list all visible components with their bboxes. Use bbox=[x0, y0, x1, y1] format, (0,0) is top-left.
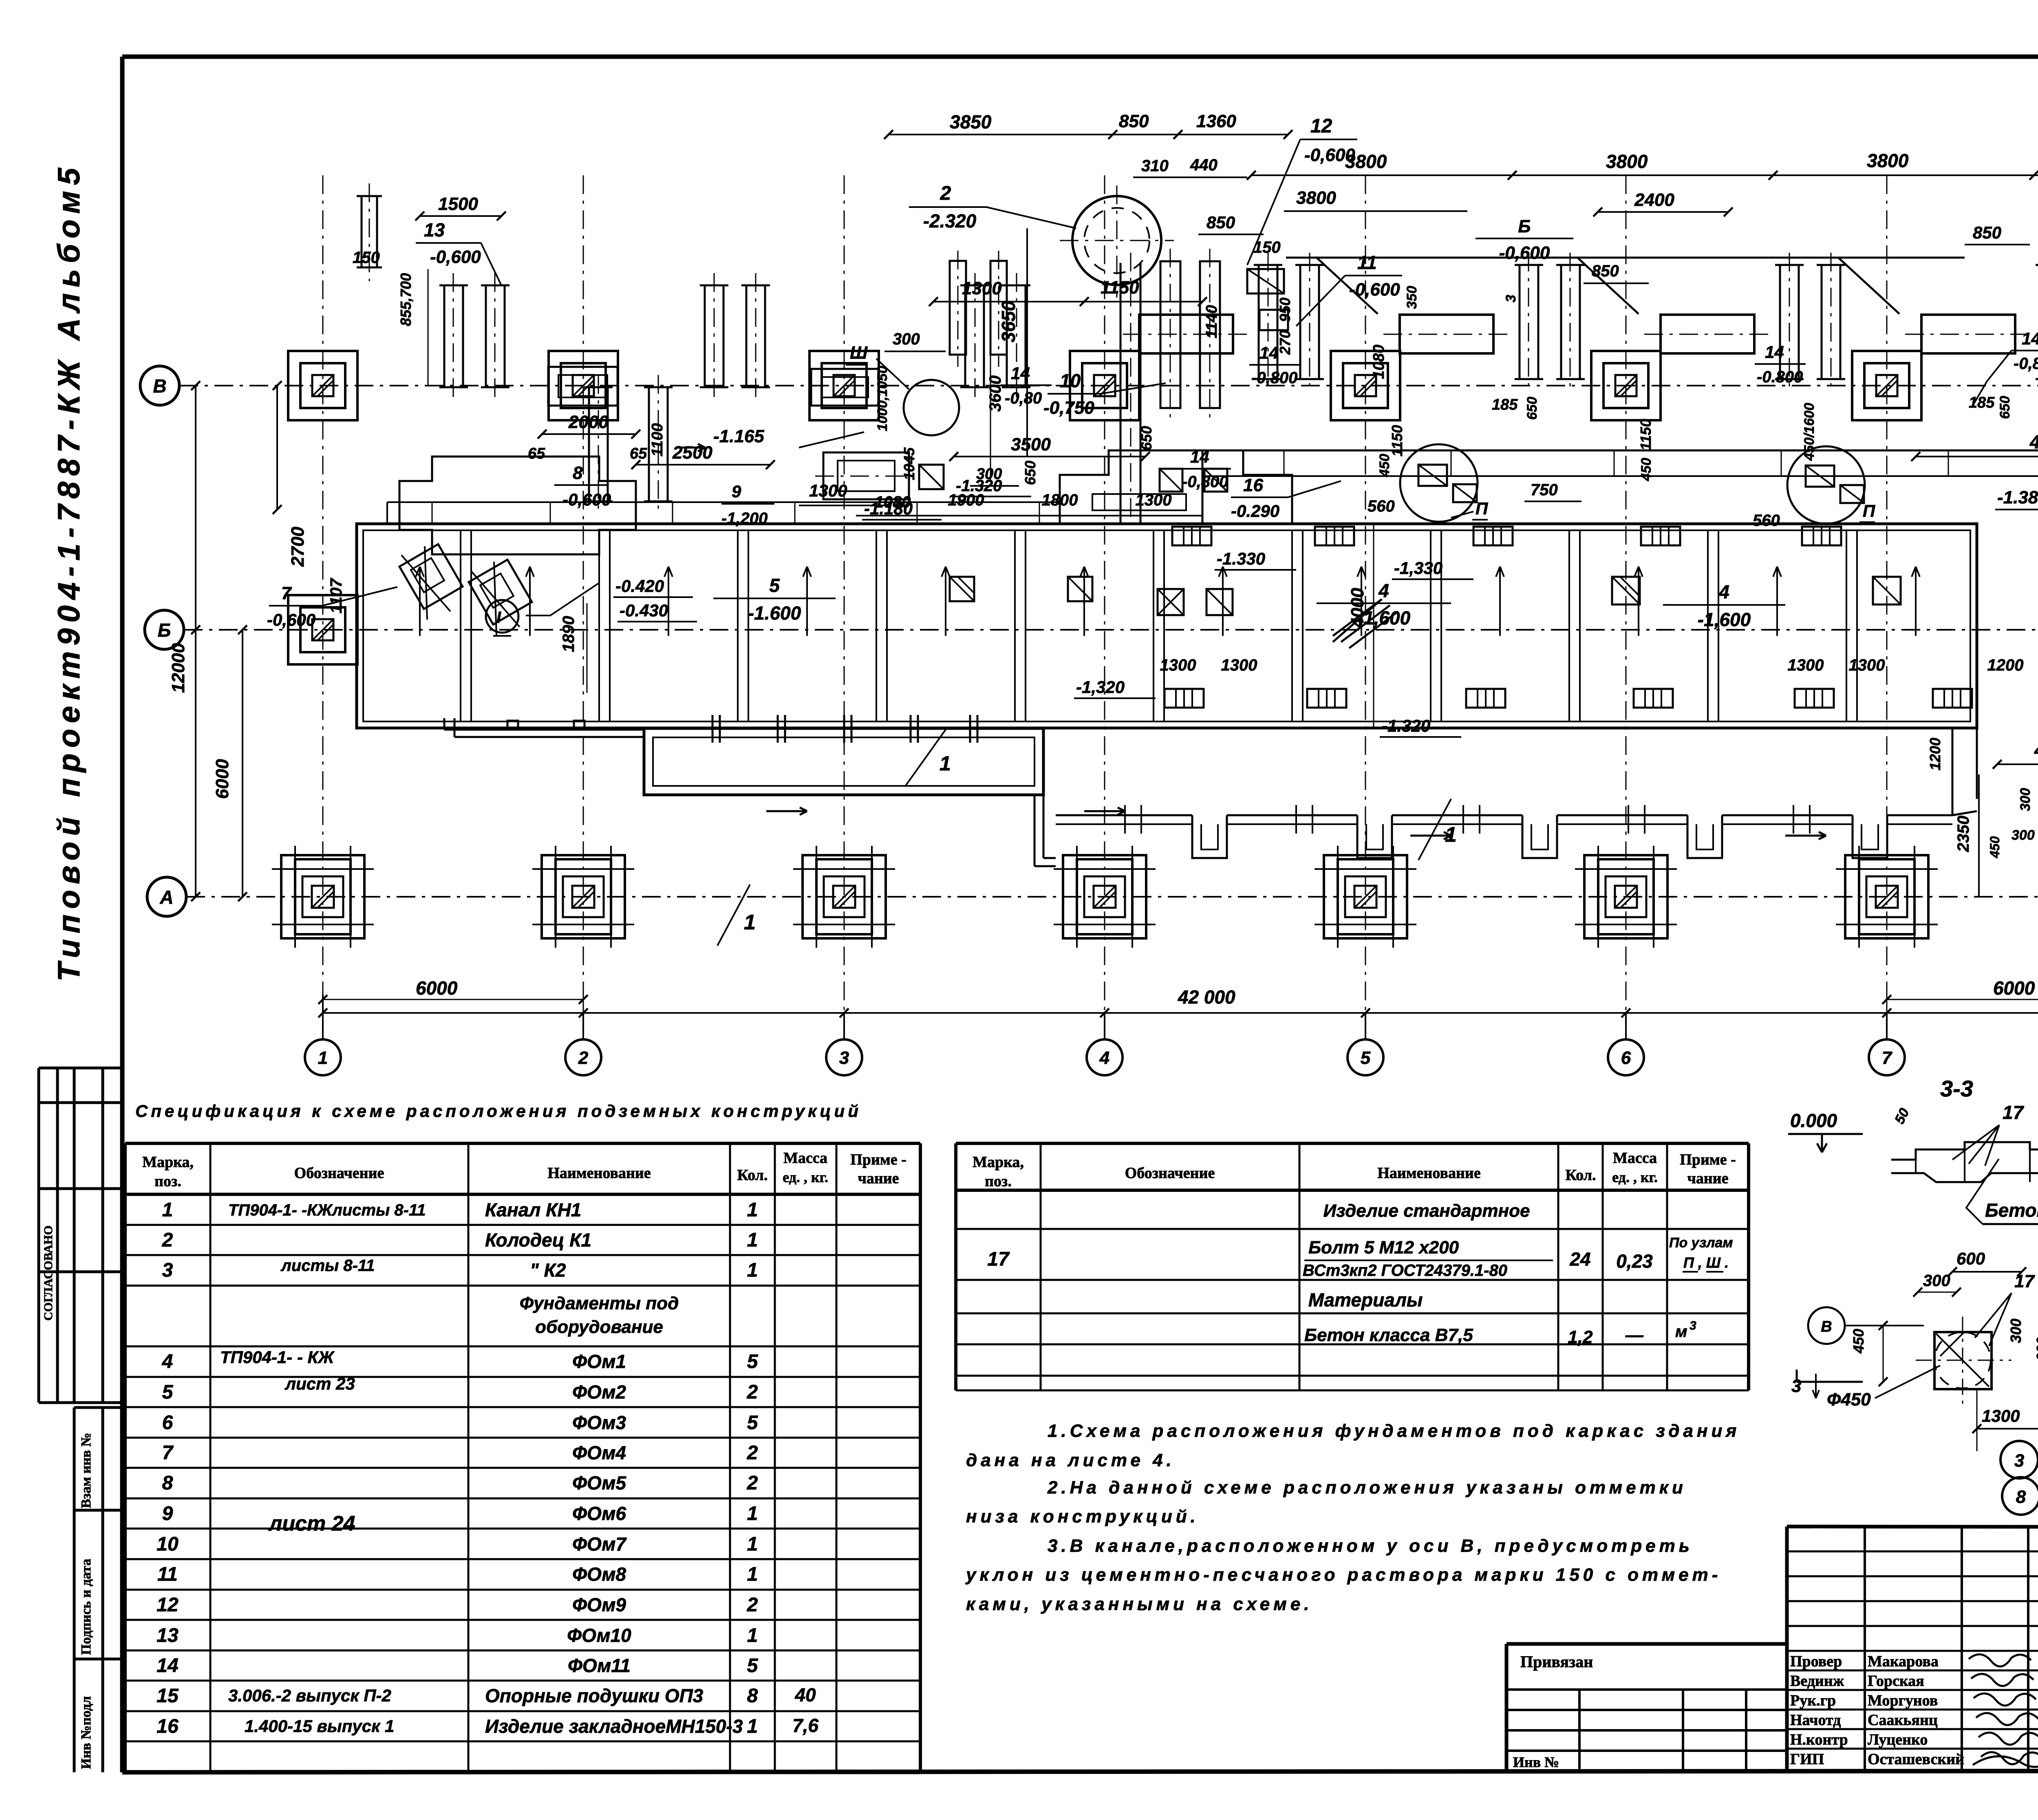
svg-text:Ш: Ш bbox=[850, 343, 868, 363]
svg-text:300: 300 bbox=[2012, 827, 2035, 843]
svg-text:-1.380: -1.380 bbox=[1997, 488, 2038, 507]
svg-text:Изделие закладноеМН150-3: Изделие закладноеМН150-3 bbox=[485, 1716, 743, 1737]
column line 4 bbox=[1104, 175, 1105, 1039]
channel pair span 2-3 bbox=[700, 273, 770, 399]
svg-text:-0.420: -0.420 bbox=[615, 576, 664, 596]
svg-text:12: 12 bbox=[1310, 115, 1332, 137]
axis circle В bbox=[140, 366, 179, 405]
column line 5 bbox=[1365, 175, 1366, 1039]
axis circle А bbox=[147, 877, 186, 916]
svg-text:чание: чание bbox=[1687, 1170, 1728, 1187]
svg-text:4050: 4050 bbox=[2034, 740, 2038, 760]
axis circle Б bbox=[145, 610, 184, 649]
dim 300 mid bbox=[970, 465, 1019, 486]
svg-text:Н.контр: Н.контр bbox=[1790, 1731, 1848, 1748]
svg-text:Приме -: Приме - bbox=[1680, 1151, 1736, 1168]
svg-text:5: 5 bbox=[769, 575, 780, 596]
pile cap span 4-5 bbox=[1123, 315, 1249, 353]
side stamp Подпись и дата bbox=[74, 1510, 122, 1655]
svg-text:ФОм7: ФОм7 bbox=[572, 1533, 627, 1555]
svg-text:Марка,: Марка, bbox=[142, 1154, 194, 1171]
side stamp Взам инв № bbox=[74, 1407, 122, 1772]
svg-text:3: 3 bbox=[1503, 295, 1519, 302]
svg-text:1045: 1045 bbox=[901, 447, 918, 480]
band dim 4000 vertical bbox=[1348, 524, 1374, 728]
svg-text:14: 14 bbox=[1259, 343, 1279, 362]
III circled 3 bbox=[2001, 1441, 2038, 1478]
platform edge right half bbox=[1202, 450, 2038, 524]
svg-text:16: 16 bbox=[1243, 475, 1263, 495]
node III circle top bbox=[846, 343, 959, 435]
svg-text:1200: 1200 bbox=[1927, 738, 1943, 770]
right table contents bbox=[987, 1201, 1733, 1347]
svg-text:0,23: 0,23 bbox=[1616, 1251, 1653, 1272]
column line 1 bbox=[322, 175, 324, 1039]
band dims 1300 1300 right bbox=[1788, 656, 1885, 674]
svg-text:14: 14 bbox=[2022, 329, 2038, 348]
footing А5 bbox=[1315, 846, 1416, 948]
dim 185 650 b bbox=[1969, 394, 2013, 419]
svg-text:850: 850 bbox=[1119, 111, 1149, 131]
band direction arrows bbox=[416, 567, 1920, 636]
svg-text:6000: 6000 bbox=[416, 977, 458, 999]
svg-text:поз.: поз. bbox=[154, 1173, 181, 1190]
dim 2500 bbox=[631, 443, 775, 469]
column line 2 bbox=[583, 175, 584, 1039]
svg-text:листы 8-11: листы 8-11 bbox=[280, 1257, 375, 1275]
svg-text:3800: 3800 bbox=[1345, 151, 1387, 172]
svg-text:оборудование: оборудование bbox=[535, 1317, 663, 1337]
central hatch squares bbox=[1160, 469, 1227, 492]
svg-text:2: 2 bbox=[747, 1594, 758, 1616]
axis line А bbox=[186, 896, 2038, 898]
label 750 bbox=[1524, 481, 1581, 501]
dim 1890 vertical bbox=[560, 603, 587, 693]
dim 185 650 a bbox=[1492, 396, 1540, 420]
svg-text:1: 1 bbox=[747, 1625, 758, 1646]
svg-text:5: 5 bbox=[747, 1655, 759, 1677]
svg-text:2500: 2500 bbox=[672, 443, 712, 463]
svg-text:350: 350 bbox=[1404, 286, 1420, 309]
svg-text:ФОм1: ФОм1 bbox=[572, 1351, 626, 1372]
signature scribbles bbox=[1969, 1655, 2038, 1767]
svg-text:5: 5 bbox=[162, 1381, 174, 1403]
pile cap span 5-6 bbox=[1383, 315, 1510, 353]
svg-text:17: 17 bbox=[987, 1249, 1010, 1270]
left specification table grid bbox=[125, 1143, 920, 1773]
svg-text:6000: 6000 bbox=[1993, 977, 2035, 999]
dim 1080 vertical bbox=[1370, 344, 1387, 379]
svg-text:ФОм6: ФОм6 bbox=[572, 1503, 626, 1524]
channel pair span 5-6 bbox=[1515, 253, 1585, 391]
footing А2 bbox=[532, 846, 634, 948]
svg-text:2: 2 bbox=[747, 1472, 758, 1494]
svg-text:1300: 1300 bbox=[1849, 656, 1885, 674]
vertical album title text bbox=[52, 162, 86, 982]
svg-text:12000: 12000 bbox=[168, 643, 188, 693]
dim 3600 vertical bbox=[986, 351, 1004, 481]
dim 850 mid bbox=[1584, 262, 1649, 283]
svg-text:1300: 1300 bbox=[1982, 1406, 2020, 1425]
svg-text:450: 450 bbox=[1639, 458, 1654, 481]
svg-text:8: 8 bbox=[2016, 1487, 2026, 1507]
svg-text:Обозначение: Обозначение bbox=[1125, 1165, 1215, 1182]
axis line В bbox=[179, 385, 2038, 386]
svg-text:П , Ш .: П , Ш . bbox=[1683, 1254, 1729, 1271]
svg-text:Кол.: Кол. bbox=[737, 1167, 768, 1184]
band label -1.320 b bbox=[1380, 716, 1461, 737]
svg-text:-0,600: -0,600 bbox=[430, 247, 481, 267]
svg-text:12: 12 bbox=[157, 1594, 179, 1616]
svg-text:650: 650 bbox=[1138, 426, 1155, 450]
svg-text:В: В bbox=[153, 375, 166, 397]
dim 1200 vertical bbox=[1927, 738, 1943, 770]
label 560 II right bbox=[1753, 501, 1875, 529]
svg-text:1: 1 bbox=[747, 1229, 758, 1251]
svg-text:300: 300 bbox=[2018, 788, 2033, 811]
footing В3 bbox=[801, 351, 887, 420]
svg-text:3: 3 bbox=[2014, 1451, 2024, 1471]
svg-text:Горская: Горская bbox=[1868, 1672, 1924, 1690]
svg-text:450: 450 bbox=[1987, 836, 2002, 858]
svg-text:4: 4 bbox=[1718, 581, 1729, 602]
svg-text:14: 14 bbox=[1011, 364, 1030, 383]
dim 2400 top bbox=[1593, 190, 1733, 216]
svg-text:1150: 1150 bbox=[1389, 425, 1405, 457]
channel pair span 7-8 bbox=[2036, 253, 2038, 391]
III axis line left bbox=[1797, 1370, 1863, 1382]
svg-text:Наименование: Наименование bbox=[1377, 1165, 1480, 1182]
title block signatures column bbox=[1790, 1653, 1964, 1768]
svg-text:150: 150 bbox=[353, 249, 380, 267]
axis circle 2 bbox=[565, 1039, 601, 1075]
svg-text:-0,600: -0,600 bbox=[562, 490, 611, 509]
label 14 -0.800 r3 bbox=[1973, 329, 2038, 406]
svg-text:13: 13 bbox=[424, 219, 445, 240]
central pads bbox=[1247, 269, 1288, 330]
dim row 310 440 bbox=[1133, 156, 1247, 177]
svg-text:Фундаменты под: Фундаменты под bbox=[520, 1293, 679, 1313]
svg-text:11: 11 bbox=[157, 1564, 178, 1585]
label 10 -0.750 bbox=[1043, 370, 1166, 418]
right table header bbox=[973, 1149, 1736, 1190]
canal end right bbox=[1952, 728, 1977, 815]
svg-text:300: 300 bbox=[2007, 1319, 2024, 1343]
svg-text:3800: 3800 bbox=[1606, 151, 1648, 172]
III dim 450 left bbox=[1850, 1321, 1888, 1386]
channel pair span 1-2 bbox=[439, 273, 509, 399]
svg-text:850: 850 bbox=[1592, 262, 1619, 280]
pit square col2 bbox=[548, 367, 618, 406]
svg-text:В: В bbox=[1821, 1318, 1832, 1335]
footing А7 bbox=[1836, 846, 1938, 948]
svg-text:1360: 1360 bbox=[1196, 111, 1236, 131]
III dims right bbox=[2007, 1319, 2038, 1380]
svg-text:6: 6 bbox=[162, 1412, 173, 1434]
svg-text:поз.: поз. bbox=[985, 1173, 1012, 1190]
dim 6000 vertical bbox=[212, 625, 247, 901]
svg-text:0.000: 0.000 bbox=[1790, 1110, 1837, 1131]
dim 4150 bbox=[1911, 431, 2038, 461]
svg-text:-2.320: -2.320 bbox=[923, 210, 977, 232]
svg-text:Масса: Масса bbox=[783, 1149, 827, 1167]
svg-text:17: 17 bbox=[2014, 1271, 2035, 1291]
dim row 3850 850 1360 bbox=[884, 111, 1292, 139]
left table header bbox=[142, 1149, 907, 1190]
svg-text:2: 2 bbox=[940, 183, 951, 204]
svg-text:3: 3 bbox=[1791, 1376, 1801, 1396]
svg-text:10: 10 bbox=[157, 1533, 179, 1555]
upper strip edge Б -0.600 bbox=[1286, 258, 1965, 314]
3-3 concrete note bbox=[1966, 1159, 2038, 1224]
canal settling box bbox=[644, 715, 1043, 795]
dim 3800 left of center bbox=[1284, 188, 1467, 211]
dims 65 65 bbox=[528, 445, 647, 462]
dim 6000 left line bbox=[318, 995, 588, 1004]
diag ladder bbox=[1333, 599, 1398, 648]
svg-text:-1,200: -1,200 bbox=[721, 510, 768, 527]
svg-text:-0,80: -0,80 bbox=[1005, 389, 1042, 407]
node I mark on plan bbox=[486, 600, 518, 636]
well К2 circle bbox=[1060, 185, 1174, 298]
svg-text:СОГЛАСОВАНО: СОГЛАСОВАНО bbox=[42, 1225, 55, 1321]
svg-text:600: 600 bbox=[2034, 1337, 2038, 1361]
svg-text:2350: 2350 bbox=[1954, 816, 1972, 852]
svg-text:2400: 2400 bbox=[1634, 190, 1674, 210]
svg-text:1300: 1300 bbox=[962, 278, 1002, 298]
dim 850 top left bbox=[1198, 213, 1264, 234]
svg-text:ФОм4: ФОм4 bbox=[572, 1442, 626, 1463]
pit square col3 bbox=[811, 369, 878, 406]
svg-text:Наименование: Наименование bbox=[547, 1165, 651, 1182]
svg-text:-1.600: -1.600 bbox=[748, 602, 801, 624]
svg-text:ед. , кг.: ед. , кг. bbox=[1612, 1169, 1658, 1185]
svg-text:3600: 3600 bbox=[986, 375, 1004, 412]
dim 1150 vertical bbox=[1377, 425, 1405, 477]
svg-text:3: 3 bbox=[839, 1048, 849, 1068]
svg-text:дана на листе 4.: дана на листе 4. bbox=[966, 1450, 1175, 1470]
svg-text:Приме -: Приме - bbox=[850, 1151, 907, 1168]
labels -0.420 -0.430 bbox=[526, 576, 697, 622]
band label 5 -1.600 bbox=[713, 575, 836, 624]
binding box label bbox=[1520, 1652, 1593, 1671]
dim 2700 vertical bbox=[273, 381, 308, 567]
label 7 -0.600 left bbox=[267, 583, 397, 629]
axis circle 7 bbox=[1869, 1039, 1905, 1075]
label 1 arrow a bbox=[905, 730, 951, 787]
svg-text:Бетон класса В7,5: Бетон класса В7,5 bbox=[1985, 1200, 2038, 1221]
III dim 600 bbox=[1948, 1249, 2026, 1276]
footing В5 bbox=[1323, 351, 1408, 420]
svg-text:1890: 1890 bbox=[560, 616, 578, 652]
dim 1107 vertical bbox=[327, 578, 345, 613]
dim 12000 vertical bbox=[168, 381, 200, 901]
footing А6 bbox=[1575, 846, 1677, 948]
svg-text:560: 560 bbox=[1367, 497, 1395, 515]
svg-text:3: 3 bbox=[1690, 1319, 1696, 1332]
svg-text:3.006.-2 выпуск П-2: 3.006.-2 выпуск П-2 bbox=[228, 1686, 391, 1705]
svg-text:3800: 3800 bbox=[1296, 188, 1336, 208]
svg-text:14: 14 bbox=[157, 1655, 178, 1677]
svg-text:м: м bbox=[1675, 1323, 1687, 1341]
svg-text:-0.800: -0.800 bbox=[1757, 368, 1803, 386]
svg-text:650: 650 bbox=[1524, 397, 1540, 420]
canal КН1 zigzag bbox=[1056, 805, 1952, 858]
dim 1100 vertical bbox=[649, 423, 666, 457]
svg-text:Опорные подушки ОП3: Опорные подушки ОП3 bbox=[485, 1685, 704, 1706]
svg-text:310: 310 bbox=[1141, 157, 1169, 175]
svg-text:1150: 1150 bbox=[1101, 278, 1139, 298]
node II hatch left bbox=[1418, 465, 1477, 502]
dim 150 center bbox=[1253, 238, 1281, 256]
label 300 a bbox=[884, 330, 946, 351]
svg-text:2: 2 bbox=[747, 1442, 758, 1464]
small dims near III bbox=[1987, 788, 2035, 858]
channel pair below В span2 bbox=[584, 375, 673, 514]
dim 1150 450 vertical bbox=[1637, 419, 1654, 481]
right specification table grid bbox=[956, 1143, 1749, 1390]
dims 855 700 vertical bbox=[397, 269, 428, 386]
axis circle 6 bbox=[1608, 1039, 1644, 1075]
svg-text:1: 1 bbox=[162, 1199, 173, 1221]
band label -1.330 a bbox=[1215, 549, 1296, 570]
svg-text:600: 600 bbox=[1956, 1249, 1985, 1268]
svg-text:ФОм2: ФОм2 bbox=[572, 1381, 626, 1403]
column line 6 bbox=[1626, 175, 1627, 1039]
dim 450 1600 vertical bbox=[1802, 403, 1817, 461]
svg-text:ФОм5: ФОм5 bbox=[572, 1472, 626, 1494]
svg-text:ФОм10: ФОм10 bbox=[567, 1625, 631, 1646]
svg-text:ВСт3кп2 ГОСТ24379.1-80: ВСт3кп2 ГОСТ24379.1-80 bbox=[1303, 1262, 1507, 1280]
svg-text:11: 11 bbox=[1357, 252, 1377, 273]
svg-text:4150: 4150 bbox=[2029, 431, 2038, 452]
svg-text:1080: 1080 bbox=[1370, 344, 1387, 379]
general notes text bbox=[965, 1421, 1740, 1614]
column line 3 bbox=[844, 175, 845, 1039]
svg-text:450/1600: 450/1600 bbox=[1802, 403, 1817, 461]
rotated footing 7b bbox=[469, 560, 532, 635]
svg-text:2.На данной схеме расположе: 2.На данной схеме расположения указаны о… bbox=[1047, 1478, 1687, 1498]
svg-text:-0.430: -0.430 bbox=[620, 601, 668, 620]
footing В1 bbox=[280, 351, 366, 420]
III label 17 bbox=[1975, 1271, 2035, 1346]
central channel b bbox=[1200, 249, 1220, 422]
label -1.320 mid bbox=[954, 477, 1031, 496]
channel pair below В span3 bbox=[950, 251, 1007, 367]
svg-text:Типовой проект904-1-7887-КЖ Ал: Типовой проект904-1-7887-КЖ Альбом5 bbox=[52, 162, 86, 982]
binding box grid bbox=[1506, 1690, 1787, 1772]
svg-text:-0,600: -0,600 bbox=[267, 610, 315, 629]
label 11 -0.600 bbox=[1296, 252, 1402, 326]
svg-text:1: 1 bbox=[747, 1716, 758, 1737]
svg-text:А: А bbox=[159, 887, 173, 908]
dim 2350 vertical bbox=[1954, 774, 1979, 897]
svg-text:—: — bbox=[1625, 1325, 1644, 1345]
label 13 -0.600 bbox=[416, 219, 501, 285]
svg-text:3850: 3850 bbox=[950, 111, 992, 132]
section title 3-3 bbox=[1940, 1076, 1973, 1101]
svg-text:1500: 1500 bbox=[438, 194, 478, 214]
svg-text:7,6: 7,6 bbox=[792, 1715, 818, 1736]
svg-text:5: 5 bbox=[1361, 1048, 1371, 1068]
dim row 3800 x4 5200 bbox=[1247, 149, 2038, 180]
svg-text:3650: 3650 bbox=[998, 300, 1019, 342]
svg-text:1.Схема расположения фундаме: 1.Схема расположения фундаментов под кар… bbox=[1048, 1421, 1740, 1441]
svg-text:42 000: 42 000 bbox=[1178, 986, 1235, 1008]
svg-text:7: 7 bbox=[1882, 1048, 1893, 1068]
svg-text:чание: чание bbox=[858, 1170, 899, 1187]
svg-text:Саакьянц: Саакьянц bbox=[1868, 1712, 1938, 1729]
svg-text:Канал КН1: Канал КН1 bbox=[485, 1199, 581, 1220]
svg-text:3800: 3800 bbox=[1867, 150, 1909, 171]
svg-text:Колодец К1: Колодец К1 bbox=[485, 1229, 591, 1251]
svg-text:Взам инв №: Взам инв № bbox=[79, 1433, 94, 1508]
svg-text:14: 14 bbox=[1765, 342, 1784, 362]
svg-text:Рук.гр: Рук.гр bbox=[1790, 1692, 1836, 1709]
svg-text:лист 23: лист 23 bbox=[285, 1374, 355, 1393]
svg-text:Начотд: Начотд bbox=[1790, 1712, 1841, 1729]
footing В4 bbox=[1062, 351, 1147, 420]
arrow marks mid band bbox=[766, 807, 1826, 839]
svg-text:" К2: " К2 bbox=[530, 1260, 566, 1281]
svg-text:Обозначение: Обозначение bbox=[294, 1165, 384, 1182]
svg-text:Бетон класса В7,5: Бетон класса В7,5 bbox=[1304, 1325, 1473, 1345]
svg-text:7: 7 bbox=[162, 1442, 174, 1464]
svg-text:1: 1 bbox=[747, 1533, 758, 1555]
svg-text:1: 1 bbox=[318, 1048, 328, 1068]
III circled 8 bbox=[2002, 1477, 2038, 1515]
III dim 1300 bbox=[1972, 1390, 2038, 1451]
svg-text:ФОм3: ФОм3 bbox=[572, 1412, 626, 1433]
svg-text:440: 440 bbox=[1190, 156, 1218, 174]
svg-text:ФОм8: ФОм8 bbox=[572, 1564, 626, 1585]
svg-text:2: 2 bbox=[162, 1229, 173, 1251]
3-3 level 0.000 bbox=[1788, 1110, 1863, 1152]
svg-text:-1,600: -1,600 bbox=[1698, 609, 1751, 630]
svg-text:Материалы: Материалы bbox=[1308, 1289, 1423, 1310]
svg-text:1: 1 bbox=[747, 1564, 758, 1585]
small hatch col6 bbox=[1612, 577, 1640, 604]
dims 270 950 vertical bbox=[1277, 298, 1293, 355]
svg-text:3-3: 3-3 bbox=[1940, 1076, 1973, 1101]
svg-text:Болт 5 М12 х200: Болт 5 М12 х200 bbox=[1308, 1238, 1459, 1257]
svg-text:4: 4 bbox=[1099, 1048, 1109, 1068]
svg-text:-0,800: -0,800 bbox=[1251, 369, 1297, 387]
svg-text:Изделие стандартное: Изделие стандартное bbox=[1323, 1201, 1530, 1221]
left table contents bbox=[157, 1199, 818, 1737]
svg-text:2700: 2700 bbox=[288, 527, 308, 567]
svg-text:300: 300 bbox=[893, 330, 920, 348]
machine foundation band outline bbox=[357, 524, 1977, 728]
svg-text:-0.290: -0.290 bbox=[1231, 501, 1279, 521]
rotated footing 7a bbox=[399, 544, 463, 620]
svg-text:Вединж: Вединж bbox=[1790, 1672, 1844, 1690]
svg-text:Макарова: Макарова bbox=[1868, 1653, 1939, 1670]
svg-text:24: 24 bbox=[1569, 1249, 1590, 1270]
dim 1045 1000 1050 vertical bbox=[875, 366, 918, 480]
svg-text:-1.165: -1.165 bbox=[713, 426, 764, 446]
svg-text:9: 9 bbox=[162, 1503, 173, 1524]
svg-text:16: 16 bbox=[157, 1716, 179, 1737]
svg-text:855,700: 855,700 bbox=[397, 273, 414, 326]
svg-text:270: 270 bbox=[1277, 330, 1293, 355]
svg-text:-0,600: -0,600 bbox=[1349, 280, 1400, 300]
svg-text:40: 40 bbox=[794, 1684, 816, 1705]
dim 1300 mid bbox=[799, 481, 889, 505]
svg-text:6000: 6000 bbox=[212, 759, 232, 799]
dim 1500 bbox=[415, 194, 506, 221]
band dims 1200 2460 bbox=[1987, 656, 2038, 674]
